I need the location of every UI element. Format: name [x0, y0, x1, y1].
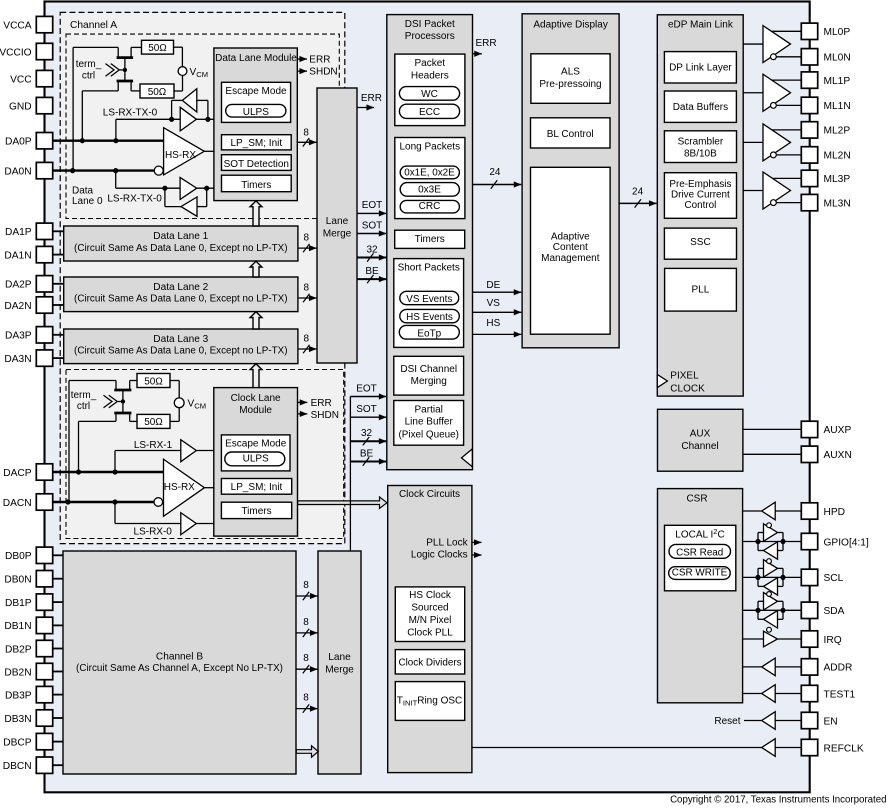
svg-text:HS Events: HS Events [406, 312, 453, 323]
svg-text:Long Packets: Long Packets [399, 141, 460, 152]
svg-text:ML3N: ML3N [824, 198, 851, 209]
svg-text:ERR: ERR [475, 38, 496, 49]
svg-text:Sourced: Sourced [411, 602, 448, 613]
svg-text:Partial: Partial [415, 405, 443, 416]
svg-text:DACP: DACP [3, 468, 32, 479]
svg-text:8B/10B: 8B/10B [684, 148, 717, 159]
svg-text:TEST1: TEST1 [824, 689, 856, 700]
svg-text:PLL: PLL [692, 284, 710, 295]
svg-text:8: 8 [303, 580, 309, 591]
svg-text:VCCA: VCCA [3, 20, 32, 31]
svg-text:50Ω: 50Ω [144, 376, 163, 387]
svg-text:DA3P: DA3P [5, 331, 32, 342]
svg-text:LS-RX-TX-0: LS-RX-TX-0 [107, 193, 162, 204]
svg-text:AUXN: AUXN [824, 450, 852, 461]
svg-text:Logic Clocks: Logic Clocks [411, 549, 468, 560]
svg-text:DA1P: DA1P [5, 227, 32, 238]
svg-text:DB2P: DB2P [5, 644, 32, 655]
svg-text:8: 8 [303, 653, 309, 664]
svg-text:ML2P: ML2P [824, 126, 851, 137]
svg-text:ML1P: ML1P [824, 76, 851, 87]
svg-text:Merge: Merge [323, 229, 352, 240]
svg-text:Escape Mode: Escape Mode [225, 86, 287, 97]
svg-text:DA2P: DA2P [5, 280, 32, 291]
svg-text:Merging: Merging [411, 376, 447, 387]
svg-text:term_: term_ [71, 390, 97, 401]
svg-text:Module: Module [239, 405, 272, 416]
svg-text:Adaptive Display: Adaptive Display [533, 20, 607, 31]
svg-text:LS-RX-0: LS-RX-0 [134, 526, 173, 537]
svg-text:M/N Pixel: M/N Pixel [409, 615, 452, 626]
svg-text:EOT: EOT [362, 200, 383, 211]
svg-text:8: 8 [304, 334, 310, 345]
svg-text:SHDN: SHDN [311, 410, 339, 421]
svg-text:Timers: Timers [415, 234, 445, 245]
svg-text:Packet: Packet [415, 58, 446, 69]
svg-text:DA0P: DA0P [5, 137, 32, 148]
svg-text:DB3P: DB3P [5, 690, 32, 701]
svg-text:(Circuit Same As Data Lane 0,: (Circuit Same As Data Lane 0, Except no … [74, 346, 288, 357]
svg-text:REFCLK: REFCLK [824, 743, 864, 754]
svg-text:Reset: Reset [714, 716, 740, 727]
svg-text:Pre-pressoing: Pre-pressoing [539, 79, 601, 90]
svg-text:LS-RX-TX-0: LS-RX-TX-0 [103, 108, 158, 119]
svg-text:50Ω: 50Ω [148, 87, 167, 98]
svg-text:Adaptive: Adaptive [551, 231, 590, 242]
svg-text:DBCP: DBCP [3, 737, 32, 748]
svg-text:8: 8 [303, 617, 309, 628]
svg-text:ULPS: ULPS [243, 107, 269, 118]
svg-text:Lane: Lane [326, 216, 349, 227]
svg-text:Data Buffers: Data Buffers [673, 102, 728, 113]
svg-text:CSR Read: CSR Read [676, 547, 723, 558]
svg-text:VS: VS [487, 298, 501, 309]
svg-text:ERR: ERR [311, 398, 332, 409]
svg-text:EoTp: EoTp [417, 328, 441, 339]
svg-text:SDA: SDA [824, 606, 845, 617]
svg-text:Escape Mode: Escape Mode [225, 439, 287, 450]
svg-text:Clock Dividers: Clock Dividers [398, 658, 461, 669]
svg-text:Drive Current: Drive Current [671, 190, 730, 201]
svg-text:DA0N: DA0N [4, 166, 31, 177]
svg-text:SOT: SOT [356, 404, 377, 415]
svg-text:ERR: ERR [361, 93, 382, 104]
svg-text:LP_SM; Init: LP_SM; Init [231, 482, 283, 493]
svg-text:ctrl: ctrl [82, 71, 95, 82]
svg-text:SHDN: SHDN [309, 67, 337, 78]
svg-text:EN: EN [824, 716, 838, 727]
svg-text:DBCN: DBCN [3, 761, 32, 772]
svg-text:BE: BE [360, 448, 374, 459]
svg-text:WC: WC [421, 89, 438, 100]
svg-text:32: 32 [361, 428, 373, 439]
svg-text:Processors: Processors [405, 31, 455, 42]
svg-text:HS-RX: HS-RX [165, 150, 196, 161]
svg-text:(Circuit Same As Data Lane 0,: (Circuit Same As Data Lane 0, Except no … [74, 243, 288, 254]
svg-text:ECC: ECC [419, 107, 440, 118]
svg-text:HS-RX: HS-RX [164, 482, 195, 493]
svg-text:HS Clock: HS Clock [409, 590, 452, 601]
svg-text:8: 8 [303, 693, 309, 704]
svg-text:50Ω: 50Ω [148, 43, 167, 54]
svg-text:DA1N: DA1N [4, 250, 31, 261]
svg-text:ALS: ALS [561, 66, 580, 77]
svg-text:24: 24 [489, 167, 501, 178]
svg-text:CLOCK: CLOCK [670, 383, 705, 394]
svg-text:VCC: VCC [10, 74, 32, 85]
svg-text:0x3E: 0x3E [418, 184, 441, 195]
svg-text:Data Lane 3: Data Lane 3 [153, 334, 208, 345]
svg-text:Data Lane 1: Data Lane 1 [153, 231, 208, 242]
svg-text:Lane: Lane [328, 652, 351, 663]
svg-text:DA2N: DA2N [4, 301, 31, 312]
svg-text:ctrl: ctrl [77, 401, 90, 412]
svg-text:SSC: SSC [690, 237, 711, 248]
svg-text:LS-RX-1: LS-RX-1 [134, 440, 173, 451]
svg-text:Pre-Emphasis: Pre-Emphasis [669, 179, 731, 190]
svg-text:DE: DE [486, 280, 500, 291]
svg-text:HS: HS [486, 318, 500, 329]
svg-text:ULPS: ULPS [243, 454, 269, 465]
svg-text:8: 8 [303, 128, 309, 139]
svg-text:CSR WRITE: CSR WRITE [672, 568, 728, 579]
svg-text:DACN: DACN [3, 498, 32, 509]
svg-text:DSI Packet: DSI Packet [405, 19, 455, 30]
svg-text:BL Control: BL Control [547, 129, 594, 140]
svg-text:Channel A: Channel A [70, 20, 117, 31]
svg-text:50Ω: 50Ω [144, 417, 163, 428]
svg-text:DSI Channel: DSI Channel [400, 364, 457, 375]
svg-text:DB2N: DB2N [4, 667, 31, 678]
svg-text:Data Lane 2: Data Lane 2 [153, 282, 208, 293]
svg-text:Copyright © 2017, Texas Instru: Copyright © 2017, Texas Instruments Inco… [670, 794, 886, 805]
svg-text:8: 8 [304, 233, 310, 244]
svg-text:IRQ: IRQ [824, 635, 842, 646]
svg-text:BE: BE [365, 266, 379, 277]
svg-text:HPD: HPD [824, 507, 846, 518]
svg-text:AUXP: AUXP [824, 425, 852, 436]
svg-text:Clock PLL: Clock PLL [407, 628, 453, 639]
svg-text:ML2N: ML2N [824, 151, 851, 162]
svg-text:LP_SM; Init: LP_SM; Init [230, 138, 282, 149]
svg-text:ML1N: ML1N [824, 101, 851, 112]
svg-text:24: 24 [632, 186, 644, 197]
svg-text:ERR: ERR [309, 55, 330, 66]
svg-text:Management: Management [541, 253, 600, 264]
svg-text:CRC: CRC [419, 201, 441, 212]
svg-text:AUX: AUX [690, 429, 711, 440]
svg-text:DA3N: DA3N [4, 354, 31, 365]
svg-text:ML3P: ML3P [824, 174, 851, 185]
svg-text:32: 32 [366, 244, 378, 255]
svg-text:8: 8 [304, 283, 310, 294]
svg-text:ADDR: ADDR [824, 663, 853, 674]
svg-text:Clock Circuits: Clock Circuits [399, 489, 460, 500]
svg-text:EOT: EOT [356, 383, 377, 394]
svg-text:eDP Main Link: eDP Main Link [668, 20, 734, 31]
svg-text:GPIO[4:1]: GPIO[4:1] [824, 537, 869, 548]
svg-text:Timers: Timers [241, 506, 271, 517]
svg-text:DB1P: DB1P [5, 598, 32, 609]
svg-text:DB0N: DB0N [4, 575, 31, 586]
svg-text:ML0P: ML0P [824, 27, 851, 38]
svg-text:SCL: SCL [824, 573, 844, 584]
svg-text:Data Lane Module: Data Lane Module [215, 53, 297, 64]
svg-text:ML0N: ML0N [824, 53, 851, 64]
svg-text:Line Buffer: Line Buffer [405, 417, 454, 428]
svg-text:Channel: Channel [681, 441, 718, 452]
svg-text:0x1E, 0x2E: 0x1E, 0x2E [404, 167, 455, 178]
svg-text:Content: Content [553, 242, 588, 253]
svg-text:CSR: CSR [686, 494, 707, 505]
svg-text:SOT Detection: SOT Detection [224, 159, 289, 170]
svg-text:Merge: Merge [325, 664, 354, 675]
svg-text:Short Packets: Short Packets [398, 262, 460, 273]
svg-text:Headers: Headers [411, 71, 449, 82]
svg-text:VCCIO: VCCIO [0, 47, 32, 58]
svg-text:Clock Lane: Clock Lane [231, 393, 281, 404]
svg-text:SOT: SOT [362, 220, 383, 231]
svg-text:Timers: Timers [241, 180, 271, 191]
svg-text:Control: Control [684, 200, 716, 211]
svg-text:PIXEL: PIXEL [670, 371, 699, 382]
svg-text:DB1N: DB1N [4, 621, 31, 632]
svg-text:term_: term_ [76, 59, 102, 70]
svg-text:Scrambler: Scrambler [678, 136, 724, 147]
svg-text:(Pixel Queue): (Pixel Queue) [399, 429, 459, 440]
svg-text:PLL Lock: PLL Lock [426, 537, 468, 548]
svg-text:DP Link Layer: DP Link Layer [669, 63, 732, 74]
svg-text:Lane 0: Lane 0 [72, 196, 103, 207]
svg-text:(Circuit Same As Channel A, Ex: (Circuit Same As Channel A, Except No LP… [76, 663, 283, 674]
svg-text:VS Events: VS Events [406, 294, 452, 305]
svg-text:DB0P: DB0P [5, 551, 32, 562]
svg-text:DB3N: DB3N [4, 714, 31, 725]
svg-text:Channel B: Channel B [156, 652, 203, 663]
svg-text:LOCAL I2C: LOCAL I2C [675, 527, 724, 541]
svg-text:(Circuit Same As Data Lane 0,: (Circuit Same As Data Lane 0, Except no … [74, 294, 288, 305]
svg-text:GND: GND [9, 101, 32, 112]
